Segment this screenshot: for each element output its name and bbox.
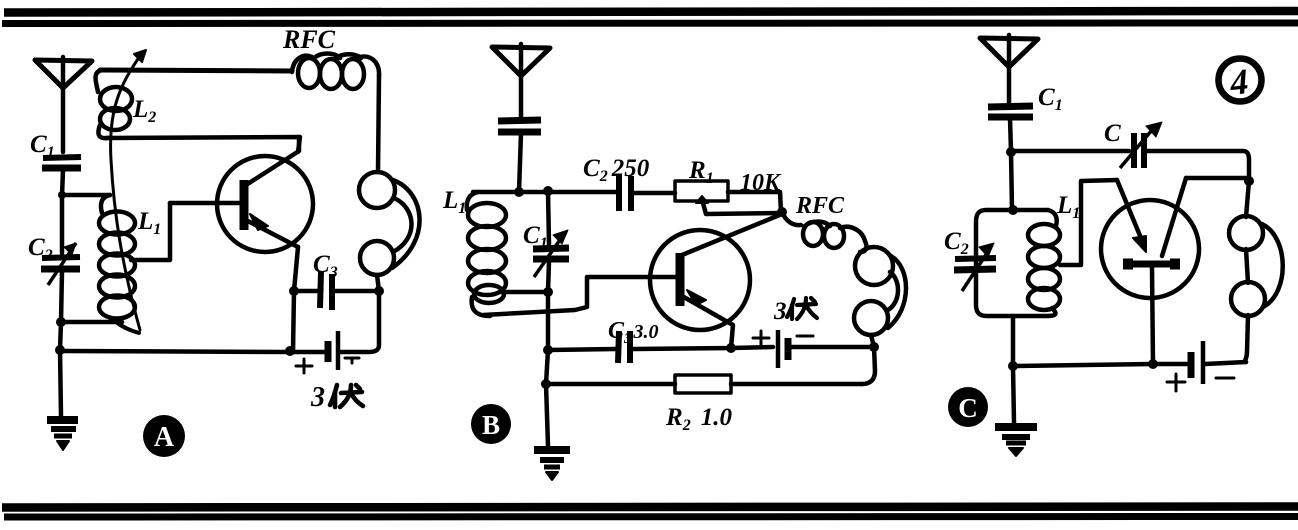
node dot B7 (726, 343, 736, 353)
transistor Q3 right diagonal (1162, 178, 1186, 256)
transistor Q1 base wire (170, 201, 240, 206)
resistor R1 box (B) (675, 181, 728, 201)
transistor Q3 down wire (1152, 268, 1153, 364)
hanzi fu (A) (330, 385, 363, 407)
ground C (995, 427, 1037, 456)
transistor Q2 emitter (682, 296, 733, 348)
battery wire left (A) (290, 350, 324, 355)
wire C2 to R1 (B) (634, 191, 675, 196)
svg-text:B: B (482, 410, 500, 440)
node dot C3 (1244, 176, 1254, 186)
transistor Q3 top wire to node (1186, 176, 1246, 181)
rail to ground (B) (546, 350, 548, 446)
antenna rail to tank (C) (1011, 152, 1012, 210)
transistor Q1 (A) circle (217, 156, 313, 252)
battery (B) plates (778, 330, 788, 368)
battery B1 (A) plates (328, 331, 338, 370)
wire R1 right (B) (728, 192, 781, 212)
antenna C (980, 35, 1038, 103)
capacitor C3 (A) wire (294, 289, 379, 294)
wire C2 branch down (A) (60, 195, 65, 253)
svg-text:3: 3 (310, 382, 325, 413)
capacitor C1 (C) plates (988, 106, 1033, 152)
earphone bottom wire (A) (377, 275, 379, 291)
capacitor C3 (A) plates (320, 272, 332, 310)
rail mid segment (B) (548, 261, 549, 350)
battery minus label (A) (345, 358, 359, 363)
node dot B3 (543, 287, 553, 297)
wire L1 bottom to rail (A) (61, 320, 122, 325)
emitter wire down (A) (293, 247, 298, 352)
transistor Q2 collector (682, 214, 782, 255)
node dot A6 (285, 346, 295, 356)
variable capacitor C1 (B) (533, 230, 569, 277)
coil L1 (C) (1028, 210, 1060, 316)
earphone C (1229, 216, 1283, 316)
figure number 4 (1219, 59, 1262, 103)
capacitor C2 (B) plates (619, 176, 631, 211)
node dot A4 (289, 286, 299, 296)
top border rule (2, 11, 1298, 24)
battery minus label (C) (1216, 377, 1234, 380)
tuning arrow through L2 and L1 (A) (111, 50, 146, 330)
coil L1 (A) (99, 195, 139, 333)
node dot B2 (543, 186, 553, 196)
node dot B4 (777, 207, 787, 217)
circled C label (948, 387, 988, 427)
antenna A (35, 57, 92, 152)
capacitor C1 (A) plates (42, 157, 81, 196)
bottom border rule (2, 507, 1298, 518)
resistor R2 box (B) (675, 375, 731, 393)
top wire (C) (1011, 151, 1249, 181)
hanzi fu (B) (787, 298, 817, 319)
RFC coil (A) (292, 54, 379, 90)
antenna coupling cap (B) (498, 120, 541, 192)
transistor Q2 (B) circle (650, 230, 750, 330)
variable capacitor C2 (C) (954, 243, 996, 291)
ground A (47, 420, 78, 450)
capacitor C3 (B) plates (618, 331, 630, 363)
circled B label (471, 404, 511, 444)
svg-text:RFC: RFC (282, 25, 336, 54)
emitter arrow (A) (250, 214, 268, 230)
node dot C5 (1008, 361, 1018, 371)
transistor Q1 base bar (240, 180, 249, 230)
node dot A5 (374, 286, 384, 296)
R1 wiper arrow (B) (696, 196, 782, 214)
transistor Q3 left diagonal with arrow (1117, 180, 1146, 252)
node dot A3 (55, 345, 65, 355)
variable capacitor C (C) plates (1120, 122, 1162, 168)
right rail (C) (1245, 181, 1249, 362)
top wire (B) (473, 190, 617, 195)
right corner join (B) (862, 347, 875, 384)
battery minus label (B) (797, 335, 813, 338)
ground C rail (1013, 366, 1014, 423)
svg-text:C: C (958, 393, 978, 423)
transistor Q2 base wire (483, 277, 676, 315)
emitter arrow (B) (687, 290, 706, 305)
bottom rail (C) (1013, 362, 1246, 366)
ground B (534, 450, 570, 480)
node dot B1 (514, 187, 524, 197)
svg-text:C: C (1104, 120, 1121, 147)
wire node to L1 top (A) (62, 193, 110, 198)
battery plus label (C) (1167, 374, 1185, 391)
earphone B (854, 247, 906, 335)
tank outline (C) (976, 210, 1048, 316)
tank bottom to rail (C) (1011, 316, 1016, 366)
antenna B (492, 44, 550, 117)
battery (C) plates (1191, 341, 1203, 384)
node dot C2 (1008, 205, 1018, 215)
base wire to L1 tap (A) (131, 203, 170, 260)
lower rail y384 (B) (546, 382, 862, 387)
svg-text:3: 3 (773, 298, 787, 325)
node dot C4 (1148, 359, 1158, 369)
node dot C1 (1006, 147, 1016, 157)
transistor Q3 (C) circle (1101, 200, 1199, 298)
battery plus label (A) (296, 359, 312, 373)
transistor Q2 base bar (676, 253, 685, 306)
transistor Q1 emitter (246, 220, 298, 247)
svg-text:C33.0: C33.0 (608, 318, 659, 347)
wire RFC to earphone (A) (378, 75, 379, 172)
top wire L2 to RFC (A) (100, 70, 292, 71)
svg-text:A: A (154, 422, 175, 453)
circled A label (143, 415, 185, 457)
RFC coil (B) (782, 212, 866, 252)
coil L2 (A) (96, 70, 133, 138)
earphone bottom wire (B) (871, 335, 874, 347)
node dot A2 (56, 317, 66, 327)
node dot B6 (543, 345, 553, 355)
transistor Q1 collector (246, 137, 299, 185)
wire L2 bottom to collector corner (A) (106, 137, 300, 152)
node dot A1 (58, 191, 66, 199)
rail top segment (B) (548, 191, 549, 245)
node dot B5 (869, 342, 879, 352)
transistor Q3 emitter bar (1123, 261, 1180, 268)
wire rail segment (A) (60, 322, 61, 350)
right wire to battery (A) (341, 291, 379, 352)
svg-text:RFC: RFC (795, 193, 845, 219)
coil L1 (B) (467, 192, 548, 316)
emitter rail y348 (B) (548, 347, 874, 350)
node dot B8 (541, 379, 551, 389)
long bottom wire to battery (A) (60, 351, 290, 352)
battery plus label (B) (753, 331, 769, 346)
variable capacitor C2 (A) (41, 243, 80, 322)
wire rail to ground (A) (60, 350, 61, 416)
tap wire to transistor (C) (1060, 180, 1117, 265)
earphone A (359, 172, 420, 275)
